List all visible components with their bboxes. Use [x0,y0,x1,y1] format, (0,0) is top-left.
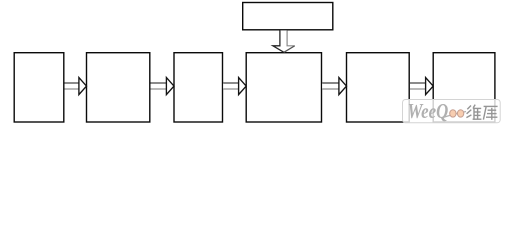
svg-text:WeeQ: WeeQ [408,101,449,124]
